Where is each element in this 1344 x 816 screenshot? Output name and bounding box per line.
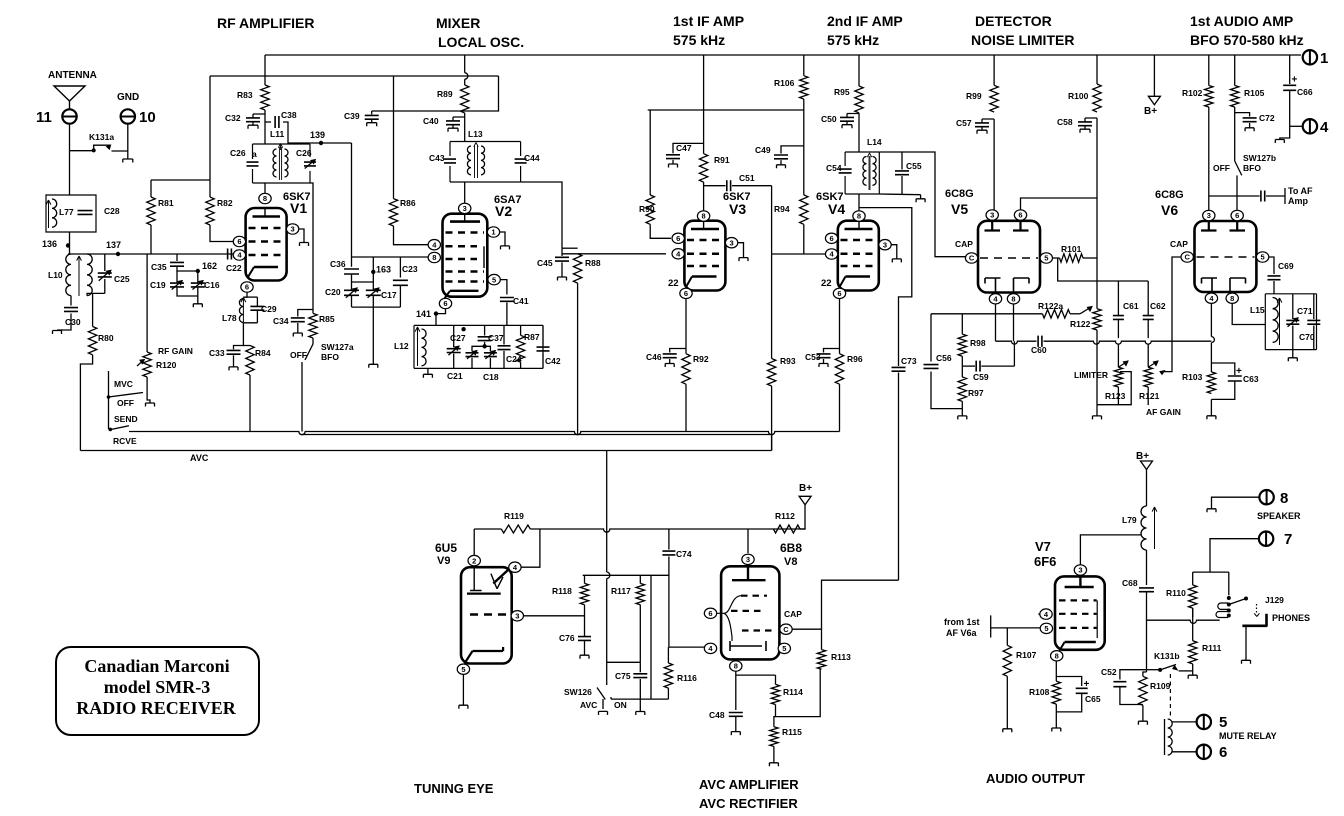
node 137 <box>106 240 121 256</box>
svg-text:C70: C70 <box>1299 332 1315 342</box>
capacitor C51 <box>704 173 772 191</box>
capacitor C72 <box>1235 113 1275 132</box>
wire V4 column from bus <box>858 55 860 86</box>
tube V4 pin 6 bottom <box>833 288 845 298</box>
svg-text:136: 136 <box>42 239 57 249</box>
svg-text:C26: C26 <box>296 148 312 158</box>
wire terminal8 ground <box>1207 497 1259 512</box>
svg-text:6: 6 <box>830 234 834 243</box>
svg-text:6C8G: 6C8G <box>1155 189 1184 201</box>
ground at 162 cluster <box>193 304 202 308</box>
svg-text:4: 4 <box>1320 119 1329 136</box>
svg-text:OFF: OFF <box>117 398 134 408</box>
svg-text:6: 6 <box>1235 211 1239 220</box>
wire V8 plate riser <box>747 529 749 553</box>
capacitor C48 <box>709 710 743 735</box>
svg-text:C25: C25 <box>114 274 130 284</box>
wire To AF row <box>1209 188 1285 204</box>
tube V3 6SK7 <box>684 191 750 291</box>
wire L13 to V2 plate <box>464 182 466 204</box>
svg-text:6: 6 <box>708 609 712 618</box>
wire R90 node row <box>648 110 704 195</box>
svg-text:3: 3 <box>1207 211 1211 220</box>
tube V1 cathode <box>248 267 278 277</box>
tube V6 pin 6 <box>1231 210 1243 220</box>
inductor L78 <box>222 297 257 323</box>
svg-text:3: 3 <box>463 204 467 213</box>
svg-text:R89: R89 <box>437 89 453 99</box>
capacitor C37 <box>461 325 503 348</box>
wire L10 bottom tie <box>87 293 105 295</box>
tube V7 cathode <box>1060 642 1096 651</box>
capacitor C62 <box>1143 281 1166 338</box>
svg-text:AF V6a: AF V6a <box>946 628 978 638</box>
svg-text:C35: C35 <box>151 262 167 272</box>
svg-text:3: 3 <box>291 225 295 234</box>
ground under R122 <box>1093 416 1102 420</box>
label SPEAKER <box>1257 511 1301 521</box>
tube V3 pin 6 <box>672 233 684 243</box>
capacitor C70 <box>1299 294 1320 350</box>
svg-text:Canadian Marconi: Canadian Marconi <box>84 656 229 676</box>
wire L79 down <box>1146 550 1148 585</box>
svg-text:C65: C65 <box>1085 694 1101 704</box>
wire L14 secondary to detector <box>902 152 966 257</box>
switch SW127b BFO <box>1213 153 1276 210</box>
resistor R112 <box>773 511 805 533</box>
svg-text:575 kHz: 575 kHz <box>827 32 879 48</box>
svg-text:C55: C55 <box>906 161 922 171</box>
wire pin2 riser <box>473 529 475 556</box>
wire bus2 <box>302 434 772 436</box>
svg-text:C48: C48 <box>709 710 725 720</box>
tube V4 dashes <box>841 240 876 266</box>
svg-text:RF GAIN: RF GAIN <box>158 346 193 356</box>
svg-text:1: 1 <box>491 228 495 237</box>
svg-text:SW127a: SW127a <box>321 342 354 352</box>
svg-text:C16: C16 <box>204 280 220 290</box>
wire V7 plate to L79 <box>1080 535 1141 565</box>
svg-text:SEND: SEND <box>114 414 138 424</box>
svg-text:R81: R81 <box>158 198 174 208</box>
label LIMITER <box>1074 370 1108 380</box>
wire ON contact to R116 bottom <box>611 575 668 699</box>
label MUTE RELAY <box>1219 731 1277 741</box>
svg-text:V6: V6 <box>1161 202 1178 218</box>
svg-text:R114: R114 <box>783 687 803 697</box>
svg-text:R121: R121 <box>1139 391 1160 401</box>
tube V5 6C8G <box>945 188 1040 293</box>
svg-text:C71: C71 <box>1297 306 1313 316</box>
wire C66 to terminal 4 and ground <box>1275 126 1302 143</box>
svg-text:V7: V7 <box>1035 539 1051 554</box>
wire V3 plate column from bus <box>703 55 705 154</box>
svg-text:R115: R115 <box>782 727 802 737</box>
capacitor C40 <box>423 116 465 132</box>
capacitor C28 <box>78 206 120 216</box>
svg-text:6: 6 <box>443 299 447 308</box>
capacitor C74 <box>662 529 691 647</box>
label To AF Amp <box>1288 186 1313 206</box>
svg-text:3: 3 <box>990 211 994 220</box>
tube V5 grid dashed row <box>980 257 1038 259</box>
capacitor C35 <box>151 254 184 272</box>
capacitor C61 <box>1113 281 1139 338</box>
svg-text:141: 141 <box>416 309 431 319</box>
inductor L10 secondary <box>77 254 93 296</box>
label ANTENNA <box>48 70 97 81</box>
svg-text:8: 8 <box>734 662 738 671</box>
svg-text:BFO: BFO <box>321 352 339 362</box>
phone jack J129 <box>1216 595 1284 618</box>
svg-text:K131b: K131b <box>1154 651 1180 661</box>
switch SW126 AVC/ON <box>564 687 627 715</box>
label DETECTOR NOISE LIMITER <box>971 13 1074 48</box>
svg-text:L78: L78 <box>222 313 237 323</box>
resistor R80 <box>80 293 113 450</box>
svg-text:R82: R82 <box>217 198 233 208</box>
svg-text:CAP: CAP <box>955 239 973 249</box>
tube V1 pin 3 <box>286 224 304 243</box>
svg-text:8: 8 <box>857 212 861 221</box>
svg-text:R108: R108 <box>1029 687 1050 697</box>
resistor R96 <box>835 354 863 432</box>
wire V8 pin8 to R114 <box>736 674 776 676</box>
terminal 1 <box>1303 50 1329 67</box>
label CAP V5 <box>955 239 973 249</box>
wire riser x498 to row111 <box>372 76 499 111</box>
tube V7 pin 4 <box>1038 609 1052 619</box>
label 22 V4 <box>821 278 832 289</box>
tube V9 dash row <box>470 613 511 615</box>
capacitor C29 <box>250 297 276 323</box>
svg-text:5: 5 <box>782 644 786 653</box>
svg-text:C42: C42 <box>545 356 561 366</box>
svg-text:C27: C27 <box>450 333 466 343</box>
capacitor C55 <box>879 152 922 195</box>
wire V6a input row <box>991 627 1040 629</box>
svg-text:+: + <box>1292 75 1298 86</box>
variable capacitor C26 <box>296 148 316 169</box>
svg-text:AF GAIN: AF GAIN <box>1146 407 1181 417</box>
title box Canadian Marconi model SMR-3 RADIO RECEIVER <box>56 647 259 735</box>
capacitor C66 <box>1283 55 1313 126</box>
svg-text:C20: C20 <box>325 287 341 297</box>
wire V4 plate to L14 <box>858 194 860 211</box>
capacitor C75 <box>615 662 647 715</box>
resistor R119 <box>501 511 805 533</box>
svg-text:163: 163 <box>376 265 391 275</box>
resistor R108 <box>1029 677 1061 712</box>
svg-text:LOCAL OSC.: LOCAL OSC. <box>438 34 524 50</box>
tube V4 pin 4 <box>825 249 837 259</box>
svg-text:7: 7 <box>1284 531 1292 548</box>
svg-text:5: 5 <box>1261 253 1265 262</box>
svg-text:2nd IF AMP: 2nd IF AMP <box>827 13 903 29</box>
wire 139 column down <box>351 143 353 257</box>
tube V9 pin 3 <box>511 611 584 621</box>
label RF GAIN <box>158 346 193 356</box>
capacitor C41 <box>500 296 529 325</box>
wire R99 column from bus <box>993 55 995 85</box>
svg-text:5: 5 <box>1044 254 1048 263</box>
svg-text:V2: V2 <box>495 203 512 219</box>
svg-text:3: 3 <box>1078 566 1082 575</box>
resistor R117 <box>611 575 645 662</box>
svg-text:R113: R113 <box>831 652 851 662</box>
tube V2 pin 5 <box>488 274 507 294</box>
capacitor C57 <box>956 118 994 134</box>
wire R83 to L11 <box>264 110 266 144</box>
label 1st IF AMP 575 kHz <box>673 13 744 48</box>
svg-text:C38: C38 <box>281 110 297 120</box>
svg-text:C29: C29 <box>261 304 277 314</box>
wire top B+ bus <box>265 54 1301 56</box>
svg-text:C66: C66 <box>1297 87 1313 97</box>
tube V3 cathode <box>686 277 717 288</box>
svg-text:R99: R99 <box>966 91 982 101</box>
resistor R102 <box>1182 55 1213 210</box>
oscillator coil box L12 <box>394 325 543 368</box>
svg-text:6: 6 <box>237 237 241 246</box>
resistor R115 <box>769 717 802 767</box>
svg-text:C28: C28 <box>104 206 120 216</box>
resistor R92 <box>682 354 709 432</box>
svg-text:8: 8 <box>1230 294 1234 303</box>
tube V8 diodes <box>730 641 766 651</box>
tube V8 pin C <box>780 624 822 634</box>
svg-text:C61: C61 <box>1123 301 1139 311</box>
svg-text:CAP: CAP <box>1170 239 1188 249</box>
relay contact K131b <box>1147 651 1193 672</box>
svg-text:C46: C46 <box>646 352 662 362</box>
tube V4 6SK7 <box>816 191 879 291</box>
resistor R82 <box>206 76 233 242</box>
svg-text:OFF: OFF <box>1213 163 1230 173</box>
resistor R118 <box>552 575 589 636</box>
tube V6 pin 8 <box>1226 293 1238 303</box>
tube V5 pin 5 <box>1040 253 1052 263</box>
svg-text:MIXER: MIXER <box>436 15 480 31</box>
svg-text:C18: C18 <box>483 372 499 382</box>
ground under L15 <box>1288 350 1297 362</box>
svg-text:V3: V3 <box>729 201 746 217</box>
svg-text:from 1st: from 1st <box>944 617 980 627</box>
svg-text:R95: R95 <box>834 87 850 97</box>
svg-text:R80: R80 <box>98 333 114 343</box>
wire V6 pin8 to L15 <box>1232 303 1265 324</box>
capacitor C43 <box>429 153 456 163</box>
svg-text:R120: R120 <box>156 360 177 370</box>
svg-text:R122: R122 <box>1070 319 1091 329</box>
svg-text:3: 3 <box>746 555 750 564</box>
svg-text:C54: C54 <box>826 163 842 173</box>
tube V8 dashes <box>731 596 775 631</box>
svg-text:R110: R110 <box>1166 588 1186 598</box>
svg-text:C41: C41 <box>513 296 529 306</box>
svg-text:R98: R98 <box>970 338 986 348</box>
svg-text:R103: R103 <box>1182 372 1203 382</box>
svg-text:C72: C72 <box>1259 113 1275 123</box>
label AVC AMPLIFIER / AVC RECTIFIER <box>699 777 799 811</box>
svg-text:RF AMPLIFIER: RF AMPLIFIER <box>217 15 314 31</box>
tube V1 pin 4 (grid1) <box>233 250 245 260</box>
svg-text:6B8: 6B8 <box>780 541 802 555</box>
svg-text:R94: R94 <box>774 204 790 214</box>
capacitor C46 <box>646 349 686 368</box>
tube V4 pin 3 <box>879 240 897 259</box>
svg-text:C26: C26 <box>230 148 246 158</box>
inductor L12 coil <box>422 329 427 366</box>
svg-text:R86: R86 <box>400 198 416 208</box>
ground under L12 <box>423 368 432 377</box>
resistor R105 <box>1231 55 1265 161</box>
tube V7 dashes <box>1059 600 1097 638</box>
variable capacitor C71 <box>1286 294 1313 350</box>
capacitor C32 <box>225 113 265 129</box>
label GND <box>117 92 139 103</box>
tube V8 pin 8 <box>730 661 742 671</box>
relay coil K131 <box>1165 719 1173 755</box>
wire V6 pin4 column <box>1211 303 1214 372</box>
tube V3 pin 8 <box>697 211 709 221</box>
svg-text:C39: C39 <box>344 111 360 121</box>
svg-text:AVC: AVC <box>190 453 209 463</box>
svg-text:BFO 570-580 kHz: BFO 570-580 kHz <box>1190 32 1304 48</box>
tube V4 pin 8 <box>853 211 865 221</box>
svg-text:R91: R91 <box>714 155 730 165</box>
svg-text:8: 8 <box>432 253 436 262</box>
wire R89 to L13 <box>464 113 466 142</box>
svg-text:8: 8 <box>702 212 706 221</box>
svg-text:R123: R123 <box>1105 391 1126 401</box>
variable capacitor C18 <box>483 346 499 382</box>
svg-text:R105: R105 <box>1244 88 1265 98</box>
svg-text:C50: C50 <box>821 114 837 124</box>
svg-text:Amp: Amp <box>1288 196 1309 206</box>
svg-text:TUNING EYE: TUNING EYE <box>414 781 494 796</box>
svg-text:R96: R96 <box>847 354 863 364</box>
svg-text:L14: L14 <box>867 137 882 147</box>
ground at V1 pin3 <box>300 243 309 247</box>
svg-text:C36: C36 <box>330 259 346 269</box>
svg-text:C59: C59 <box>973 372 989 382</box>
svg-text:V4: V4 <box>828 201 845 217</box>
capacitor C30 <box>53 296 81 334</box>
svg-text:R107: R107 <box>1016 650 1037 660</box>
tube V5 pin 6 <box>1014 210 1026 220</box>
svg-text:L12: L12 <box>394 341 409 351</box>
svg-text:C49: C49 <box>755 145 771 155</box>
inductor L10 primary <box>48 254 71 296</box>
tube V6 pin 4 <box>1205 293 1217 303</box>
svg-text:AUDIO OUTPUT: AUDIO OUTPUT <box>986 771 1085 786</box>
tube V1 pin 6 (grid3) <box>233 236 245 246</box>
variable capacitor C21 <box>447 346 485 381</box>
transformer L11 <box>253 129 311 183</box>
label RF AMPLIFIER <box>217 15 314 31</box>
tube V8 pin 5 <box>778 643 790 653</box>
svg-text:6: 6 <box>1018 211 1022 220</box>
svg-text:V8: V8 <box>784 556 797 568</box>
svg-text:R116: R116 <box>677 673 697 683</box>
svg-text:ON: ON <box>614 700 627 710</box>
tube V3 pin 6 bottom <box>680 288 692 298</box>
capacitor C63 <box>1211 363 1258 399</box>
node 163 <box>371 257 391 282</box>
tube V6 grid dashed row <box>1197 256 1255 258</box>
resistor R109 <box>1138 670 1170 725</box>
svg-text:6C8G: 6C8G <box>945 188 974 200</box>
resistor R101 <box>1053 244 1098 262</box>
node 139 <box>310 130 325 145</box>
tube V9 cathode <box>465 647 504 664</box>
resistor R103 <box>1182 372 1216 394</box>
tube V2 cathode <box>445 291 479 299</box>
svg-text:C30: C30 <box>65 317 81 327</box>
svg-text:C32: C32 <box>225 113 241 123</box>
svg-text:R85: R85 <box>319 314 335 324</box>
tube V2 grid dashes <box>446 233 485 282</box>
wire AVC bus3 <box>80 435 771 451</box>
svg-text:8: 8 <box>1280 490 1288 507</box>
svg-text:5: 5 <box>1219 714 1227 731</box>
svg-text:SW126: SW126 <box>564 687 592 697</box>
relay contact K131a <box>70 132 128 152</box>
capacitor C26a <box>230 148 259 166</box>
svg-text:6: 6 <box>684 289 688 298</box>
tube V5 plates <box>985 221 1029 231</box>
resistor R97 <box>958 366 984 416</box>
label 1st AUDIO AMP BFO 570-580 kHz <box>1190 13 1304 48</box>
wire R114 bottom to R113 <box>776 669 821 716</box>
inductor L79 <box>1122 506 1157 550</box>
svg-text:R106: R106 <box>774 78 795 88</box>
capacitor C50 <box>821 114 859 129</box>
svg-text:C57: C57 <box>956 118 972 128</box>
svg-text:6: 6 <box>837 289 841 298</box>
svg-text:3: 3 <box>883 240 887 249</box>
svg-text:R88: R88 <box>585 258 601 268</box>
capacitor C73 <box>892 356 917 580</box>
svg-text:162: 162 <box>202 261 217 271</box>
svg-text:C69: C69 <box>1278 261 1294 271</box>
wire B+ to L79 <box>1136 451 1153 506</box>
capacitor C65 <box>1056 677 1101 712</box>
svg-text:B+: B+ <box>1144 106 1157 117</box>
svg-text:NOISE LIMITER: NOISE LIMITER <box>971 32 1074 48</box>
wire C45 R88 node row <box>562 248 666 254</box>
resistor R107 <box>1003 628 1037 732</box>
svg-text:J129: J129 <box>1265 595 1284 605</box>
tube V5 pin C <box>965 253 977 263</box>
capacitor C23 <box>393 257 418 307</box>
svg-text:L13: L13 <box>468 129 483 139</box>
antenna symbol <box>54 86 85 109</box>
svg-text:R97: R97 <box>968 388 984 398</box>
svg-text:model SMR-3: model SMR-3 <box>104 677 211 697</box>
capacitor C60 <box>1031 336 1047 355</box>
svg-text:GND: GND <box>117 92 139 103</box>
wire 139 row <box>288 142 352 144</box>
capacitor C68 <box>1122 578 1154 670</box>
mechanical link dashed <box>1169 674 1171 719</box>
svg-text:SPEAKER: SPEAKER <box>1257 511 1301 521</box>
variable capacitor C20 <box>325 282 359 307</box>
variable capacitor C17 <box>366 282 397 307</box>
tube V4 pin 6 <box>825 233 837 243</box>
resistor R95 <box>834 86 863 113</box>
